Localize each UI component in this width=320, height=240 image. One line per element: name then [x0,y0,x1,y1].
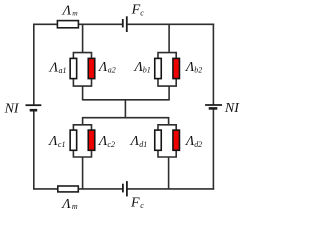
resistor Lambda_b1 (white box) [155,58,162,78]
resistor Lambda_m bottom [58,186,79,192]
svg-text:NI: NI [4,102,20,117]
wire c-pair top bus [73,125,91,131]
wire middle link center vertical [124,100,126,118]
svg-text:d2: d2 [194,140,202,149]
svg-text:Λ: Λ [129,134,140,149]
svg-text:d1: d1 [139,140,147,149]
battery Fc top [123,16,127,32]
battery NI left [26,105,42,110]
label Lambda_a2 [97,60,116,75]
resistor Lambda_d2 (red box) [173,130,180,150]
battery Fc bottom [123,181,127,196]
label Lambda_m bottom [60,197,78,212]
svg-text:b2: b2 [194,66,202,75]
svg-text:c: c [140,8,144,17]
wire right rail upper segment [212,24,214,106]
svg-text:c1: c1 [58,140,66,149]
wire top rail middle segment [79,23,123,25]
wire bottom rail right segment [127,188,214,190]
wire b-pair top bus [158,53,176,59]
label Lambda_b1 [133,60,151,75]
wire bottom rail middle segment [79,188,123,190]
svg-text:a2: a2 [108,66,116,75]
svg-text:Λ: Λ [60,197,71,212]
wire left rail lower segment [33,110,35,190]
svg-text:c: c [140,201,144,210]
label Fc bottom [130,195,144,210]
label Lambda_c2 [97,134,115,149]
resistor Lambda_c1 (white box) [70,130,77,150]
wire middle link lower horizontal with end drops [83,118,169,125]
wire bottom rail left segment [34,188,58,190]
battery NI right [205,105,222,108]
wire d-pair top bus [158,125,176,131]
label Lambda_b2 [184,60,202,75]
wire b-pair bottom bus [158,78,176,86]
wire right rail lower segment [212,108,214,189]
wire middle link upper horizontal [83,99,170,101]
svg-text:c2: c2 [107,140,115,149]
svg-text:Λ: Λ [48,60,59,75]
wire top rail left segment [34,23,57,25]
svg-text:m: m [72,202,78,211]
label Lambda_d1 [129,134,148,149]
wire d-pair bottom bus [158,150,176,157]
svg-text:Λ: Λ [61,4,72,19]
svg-text:m: m [72,8,78,17]
resistor Lambda_m top [57,21,78,28]
wire c-pair bottom bus [73,150,91,157]
label Lambda_m top [61,4,79,19]
svg-text:NI: NI [224,101,240,116]
wire a-pair bottom bus [73,78,91,86]
wire stub d-pair bottom bus to bottom rail [168,157,170,189]
wire stub a-pair bottom bus to middle link [82,86,84,100]
label Lambda_c1 [47,134,65,149]
wire stub top rail to a-pair top bus [82,24,84,52]
label Lambda_d2 [184,134,202,149]
resistor Lambda_c2 (red box) [88,130,95,150]
label Lambda_a1 [48,60,67,75]
svg-text:b1: b1 [143,66,151,75]
resistor Lambda_a2 (red box) [88,58,95,78]
svg-text:F: F [130,195,140,210]
resistor Lambda_a1 (white box) [70,58,77,78]
wire stub top rail to b-pair top bus [168,24,170,52]
wire left rail upper segment [33,24,35,106]
resistor Lambda_d1 (white box) [155,130,162,150]
svg-text:F: F [131,3,141,18]
wire stub c-pair bottom bus to bottom rail [82,157,84,189]
svg-text:a1: a1 [59,66,67,75]
label Fc top [131,3,145,18]
svg-text:Λ: Λ [97,60,108,75]
wire stub b-pair bottom bus to middle link [168,86,170,100]
svg-text:Λ: Λ [47,134,58,149]
wire top rail right segment [127,23,214,25]
resistor Lambda_b2 (red box) [173,58,180,78]
svg-text:Λ: Λ [97,134,108,149]
wire a-pair top bus [73,53,91,59]
